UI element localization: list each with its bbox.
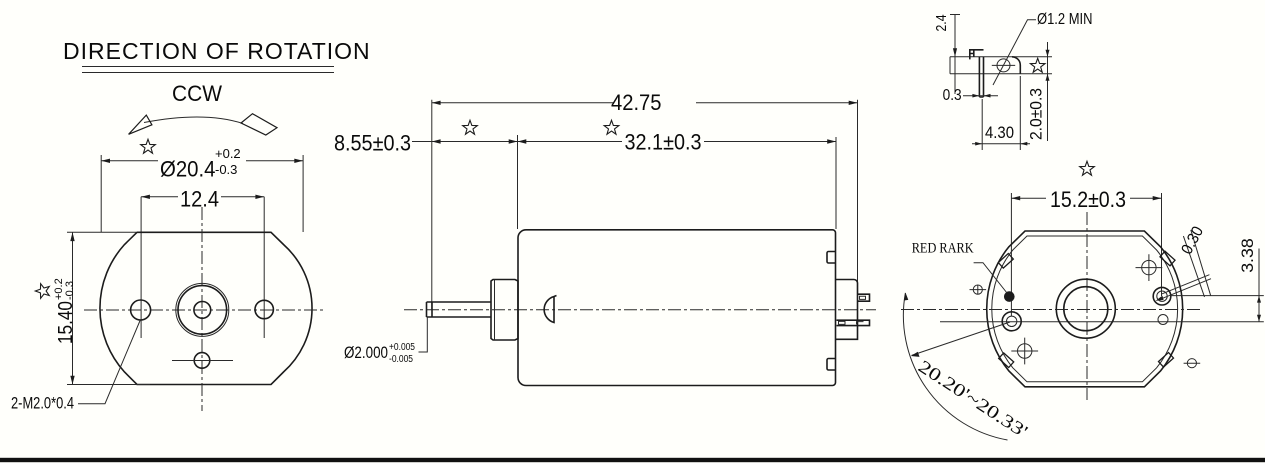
rear cross hole upper-right (1142, 260, 1156, 274)
extension line terminal tip (857, 100, 859, 290)
thread leader line (78, 320, 141, 404)
small hole centerline (172, 360, 233, 362)
detail hole (997, 59, 1010, 72)
star marker detail view (1030, 58, 1045, 72)
detail dim 2.0 text rotated (1026, 88, 1045, 140)
detail hole centerline (992, 64, 1015, 66)
terminal lower detail slot (839, 321, 864, 324)
dim 20.4 extension lines (101, 155, 303, 232)
rear dim 0.30 text rotated (1179, 224, 1208, 258)
rotation arrow head (129, 115, 152, 134)
dim 15.40 arrows (70, 232, 74, 241)
rear minus symbol right (1187, 359, 1196, 368)
star marker side view left (463, 120, 478, 134)
terminal lower (837, 320, 870, 325)
extension line body front (517, 135, 519, 229)
bottom border line (0, 458, 1265, 462)
bushing inner line (494, 280, 496, 341)
detail tab cap (970, 50, 984, 60)
svg-text:Ø1.2 MIN: Ø1.2 MIN (1037, 11, 1093, 28)
hole centerlines vertical (141, 197, 264, 338)
motor body side view (518, 230, 836, 386)
rear notch bottom-left (999, 353, 1014, 368)
svg-text:2-M2.0*0.4: 2-M2.0*0.4 (11, 394, 74, 413)
detail terminal tab (979, 57, 983, 97)
rear small hole right (1158, 315, 1168, 325)
svg-text:Ø2.000: Ø2.000 (344, 343, 388, 362)
dim 15.40 vertical line (72, 232, 74, 384)
svg-text:15.40: 15.40 (55, 301, 77, 344)
terminal upper detail (860, 296, 866, 299)
title double underline (82, 67, 334, 73)
svg-text:15.2±0.3: 15.2±0.3 (1050, 187, 1126, 212)
svg-text:12.4: 12.4 (180, 187, 219, 212)
detail dim 2.0 arrows (1046, 50, 1050, 57)
angle leader arrow (911, 352, 920, 357)
svg-text:-0.3: -0.3 (64, 281, 76, 300)
dim 12.4 line (141, 196, 264, 198)
rotation arrow arc (144, 117, 243, 124)
detail dim 0.3 line (963, 95, 998, 97)
rear outline inner (992, 236, 1178, 382)
rotation arrow tail parallelogram (241, 114, 277, 135)
detail strip rounded right end (1012, 57, 1020, 74)
svg-text:0.3: 0.3 (943, 87, 962, 104)
angle leader line (912, 322, 1010, 355)
rear vertical centerline (1086, 212, 1088, 400)
star marker front view (141, 139, 156, 153)
D-shape vent (544, 296, 556, 323)
svg-text:+0.2: +0.2 (215, 146, 241, 161)
rear cross hole lower-left (1017, 344, 1031, 358)
svg-text:RED RARK: RED RARK (912, 241, 974, 257)
svg-text:0.30: 0.30 (1179, 224, 1208, 258)
rear center circles (1056, 279, 1115, 338)
detail view: dim 2.4 text rotated (933, 15, 950, 32)
rear screw hole (1153, 287, 1171, 305)
detail dim 4.30 extension lines (982, 76, 1020, 150)
shaft (427, 302, 492, 317)
dim 8.55 arrows (432, 139, 441, 143)
star rotated near 15.40 (35, 284, 49, 299)
detail dim 4.30 arrows (975, 142, 982, 146)
dim 8.55 line (412, 141, 518, 143)
dim 32.1 line (518, 141, 837, 143)
rear plus symbol left (973, 285, 982, 294)
rear dim 15.2 extension lines (1011, 193, 1161, 316)
svg-text:42.75: 42.75 (611, 90, 662, 115)
dim 42.75 arrows (432, 101, 441, 105)
mounting hole left (131, 300, 151, 320)
bushing boss (491, 280, 518, 341)
angle text rotated (915, 356, 1032, 441)
svg-text:DIRECTION OF ROTATION: DIRECTION OF ROTATION (63, 38, 371, 64)
rear dim 3.38 extension lines (1171, 295, 1264, 297)
angle arc (903, 293, 1007, 440)
detail dim 2.4 arrow (953, 48, 957, 57)
angle arc end arrow (904, 293, 908, 301)
svg-text:-0.3: -0.3 (215, 162, 237, 177)
detail strip left end (949, 57, 951, 74)
front view body outline (100, 232, 312, 384)
detail dim 2.4 line (950, 15, 960, 95)
svg-text:-0.005: -0.005 (389, 354, 413, 365)
rear dim 3.38 arrows (1257, 296, 1261, 303)
detail dia 1.2 min leader (993, 20, 1036, 85)
bearing boss circles (176, 283, 229, 336)
svg-text:Ø20.4: Ø20.4 (160, 157, 216, 182)
rear dim 3.38 line (1258, 249, 1260, 322)
svg-text:8.55±0.3: 8.55±0.3 (334, 131, 411, 156)
detail dim 2.0 extension line (1047, 42, 1049, 141)
dim 20.4 arrows (101, 159, 110, 163)
tab bottom rear (827, 359, 836, 371)
dim 20.4 line (101, 160, 303, 162)
extension line shaft tip (431, 100, 433, 309)
rear dim 15.2 line (1011, 197, 1161, 199)
rear notch top-left (998, 253, 1013, 268)
rear slot lines (1161, 275, 1211, 299)
dim 32.1 arrows (518, 139, 527, 143)
dim 15.40 text rotated (53, 278, 77, 344)
rear marker holes line (940, 321, 1264, 323)
svg-text:4.30: 4.30 (985, 123, 1014, 142)
shaft hole circle (194, 302, 211, 319)
extension line body rear (835, 137, 837, 229)
rear horizontal centerline (901, 309, 1202, 311)
red mark leader (974, 263, 1007, 293)
rear dim 3.38 text rotated (1238, 238, 1257, 273)
rear marker hole left (1002, 312, 1021, 331)
star marker rear view (1080, 161, 1095, 175)
rear dim 15.2 arrows (1011, 196, 1020, 200)
dim 42.75 line (432, 102, 858, 104)
dim 12.4 arrows (141, 195, 150, 199)
front view vertical centerline (201, 207, 203, 411)
front view horizontal centerline (84, 309, 324, 311)
rear slot arrow (1156, 296, 1164, 301)
shaft tip chamfer line (431, 302, 433, 317)
rear slot width extension lines (1183, 230, 1210, 297)
detail dim 4.30 line (972, 143, 1030, 145)
svg-text:2.0±0.3: 2.0±0.3 (1026, 88, 1045, 140)
mounting hole right (255, 300, 273, 318)
rear outline outer (987, 231, 1183, 387)
svg-text:2.4: 2.4 (933, 15, 950, 32)
side view centerline (404, 309, 876, 311)
rear notch top-right (1160, 251, 1175, 266)
detail dim 0.3 arrows (972, 94, 979, 98)
svg-text:3.38: 3.38 (1238, 238, 1257, 273)
svg-text:+0.005: +0.005 (389, 342, 415, 353)
detail terminal strip bottom line (950, 73, 1052, 75)
rear notch bottom-right (1158, 352, 1173, 367)
star marker side view right (604, 120, 619, 134)
end cap (836, 280, 858, 340)
tab top rear (827, 252, 836, 264)
red mark dot (1004, 291, 1015, 302)
small hole bottom (194, 353, 210, 369)
dia 2.000 leader (419, 317, 428, 352)
svg-text:CCW: CCW (172, 81, 222, 106)
dim 15.40 extension lines (67, 232, 150, 384)
terminal upper (858, 294, 870, 301)
svg-text:32.1±0.3: 32.1±0.3 (625, 130, 702, 155)
detail terminal strip top line (950, 56, 1052, 58)
